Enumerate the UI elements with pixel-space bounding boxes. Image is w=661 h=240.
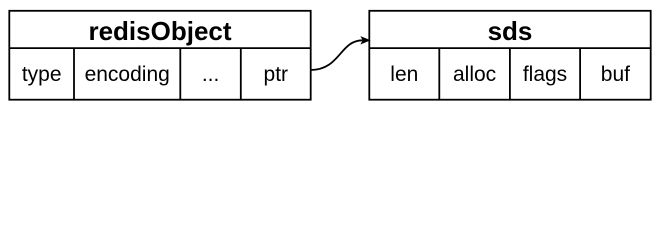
svg-text:flags: flags [523,63,567,86]
divider encoding|... [179,48,181,100]
table sds outer box [369,11,650,100]
svg-text:alloc: alloc [453,63,496,86]
svg-text:redisObject: redisObject [88,16,231,46]
divider type|encoding [73,48,75,100]
svg-text:...: ... [202,63,220,86]
divider len|alloc [438,48,440,100]
wire arrow ptr -> sds (S-curve) [311,40,363,70]
svg-text:type: type [22,63,62,86]
redisObject title divider [9,47,310,49]
sds title divider [369,47,650,49]
svg-text:encoding: encoding [85,63,170,86]
divider flags|buf [579,48,581,100]
svg-text:sds: sds [488,16,533,46]
arrowhead [362,37,370,43]
svg-text:buf: buf [601,63,630,86]
divider ...|ptr [240,48,242,100]
table redisObject outer box [9,11,310,100]
svg-text:len: len [390,63,418,86]
divider alloc|flags [509,48,511,100]
svg-text:ptr: ptr [264,63,289,86]
